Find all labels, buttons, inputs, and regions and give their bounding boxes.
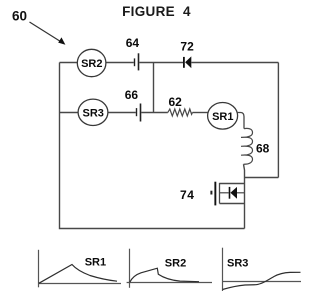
svg-text:64: 64 <box>126 36 140 50</box>
svg-text:SR3: SR3 <box>227 257 248 269</box>
svg-text:SR2: SR2 <box>165 257 186 269</box>
svg-text:SR1: SR1 <box>85 256 106 268</box>
svg-text:FIGURE 4: FIGURE 4 <box>122 4 191 19</box>
svg-text:74: 74 <box>180 188 195 202</box>
svg-text:SR2: SR2 <box>81 58 102 70</box>
svg-text:62: 62 <box>169 95 183 109</box>
svg-text:SR3: SR3 <box>82 107 103 119</box>
svg-text:SR1: SR1 <box>212 111 233 123</box>
svg-text:72: 72 <box>180 40 194 54</box>
svg-text:66: 66 <box>125 88 139 102</box>
svg-text:68: 68 <box>256 141 270 155</box>
svg-text:60: 60 <box>12 8 27 23</box>
